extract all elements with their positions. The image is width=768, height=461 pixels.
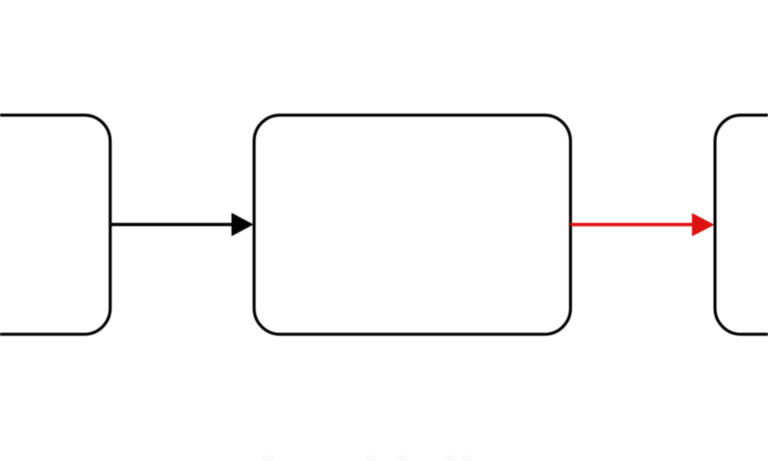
wire: red arrow shaft B2 to B3 — [571, 223, 694, 226]
box B1 (left, clipped by left edge) — [0, 115, 110, 334]
wire: black arrow shaft B1 to B2 — [110, 223, 233, 226]
faint clipped caption tops at bottom edge — [263, 456, 472, 461]
box B3 (right, clipped by right edge) — [715, 115, 768, 334]
black arrowhead — [232, 213, 254, 236]
box B2 (center) — [254, 115, 570, 334]
red arrowhead — [692, 213, 715, 236]
